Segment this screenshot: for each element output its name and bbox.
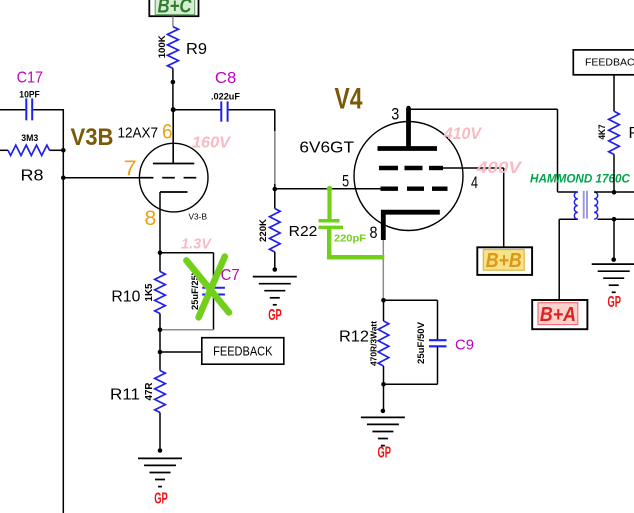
svg-text:220pF: 220pF bbox=[334, 233, 367, 245]
svg-text:10PF: 10PF bbox=[19, 90, 40, 101]
svg-text:1.3V: 1.3V bbox=[181, 236, 213, 253]
svg-text:R8: R8 bbox=[21, 168, 44, 185]
svg-text:6V6GT: 6V6GT bbox=[299, 140, 354, 157]
svg-text:FEEDBACK: FEEDBACK bbox=[213, 344, 273, 359]
svg-text:GP: GP bbox=[268, 307, 282, 324]
svg-text:HAMMOND 1760C: HAMMOND 1760C bbox=[530, 174, 631, 186]
svg-text:R22: R22 bbox=[289, 224, 318, 240]
svg-text:12AX7: 12AX7 bbox=[118, 125, 159, 142]
svg-text:V3B: V3B bbox=[71, 124, 114, 151]
svg-text:410V: 410V bbox=[443, 124, 482, 143]
svg-text:8: 8 bbox=[370, 223, 378, 242]
svg-text:1K5: 1K5 bbox=[144, 283, 155, 301]
svg-text:C8: C8 bbox=[215, 70, 237, 87]
svg-text:3: 3 bbox=[391, 104, 399, 123]
svg-text:400V: 400V bbox=[476, 158, 523, 177]
svg-text:220K: 220K bbox=[258, 219, 269, 242]
svg-text:R25: R25 bbox=[629, 125, 634, 142]
svg-text:7: 7 bbox=[124, 157, 137, 180]
svg-text:V3-B: V3-B bbox=[189, 213, 208, 222]
svg-text:B+B: B+B bbox=[486, 250, 522, 272]
svg-text:470R/3Watt: 470R/3Watt bbox=[368, 321, 378, 366]
svg-text:160V: 160V bbox=[192, 135, 231, 152]
svg-text:B+C: B+C bbox=[158, 0, 192, 18]
svg-text:GP: GP bbox=[607, 294, 621, 311]
svg-text:C17: C17 bbox=[17, 70, 44, 87]
svg-text:C9: C9 bbox=[455, 337, 474, 354]
svg-text:5: 5 bbox=[342, 172, 349, 191]
svg-text:GP: GP bbox=[154, 491, 168, 508]
svg-text:6: 6 bbox=[162, 120, 173, 143]
svg-text:25uF/50V: 25uF/50V bbox=[416, 322, 426, 364]
svg-text:R10: R10 bbox=[111, 289, 140, 306]
svg-text:8: 8 bbox=[145, 207, 157, 230]
svg-text:GP: GP bbox=[377, 445, 391, 462]
svg-text:B+A: B+A bbox=[540, 304, 576, 326]
svg-text:C7: C7 bbox=[221, 267, 240, 284]
svg-text:V4: V4 bbox=[335, 83, 363, 116]
svg-text:.022uF: .022uF bbox=[211, 92, 240, 103]
svg-text:FEEDBACK: FEEDBACK bbox=[585, 57, 634, 69]
svg-text:R12: R12 bbox=[339, 329, 369, 346]
svg-text:47R: 47R bbox=[144, 382, 155, 401]
svg-text:R11: R11 bbox=[110, 387, 140, 404]
svg-text:R9: R9 bbox=[186, 41, 207, 58]
svg-text:4K7: 4K7 bbox=[597, 125, 608, 140]
svg-text:100K: 100K bbox=[157, 35, 168, 58]
svg-text:3M3: 3M3 bbox=[21, 133, 38, 144]
